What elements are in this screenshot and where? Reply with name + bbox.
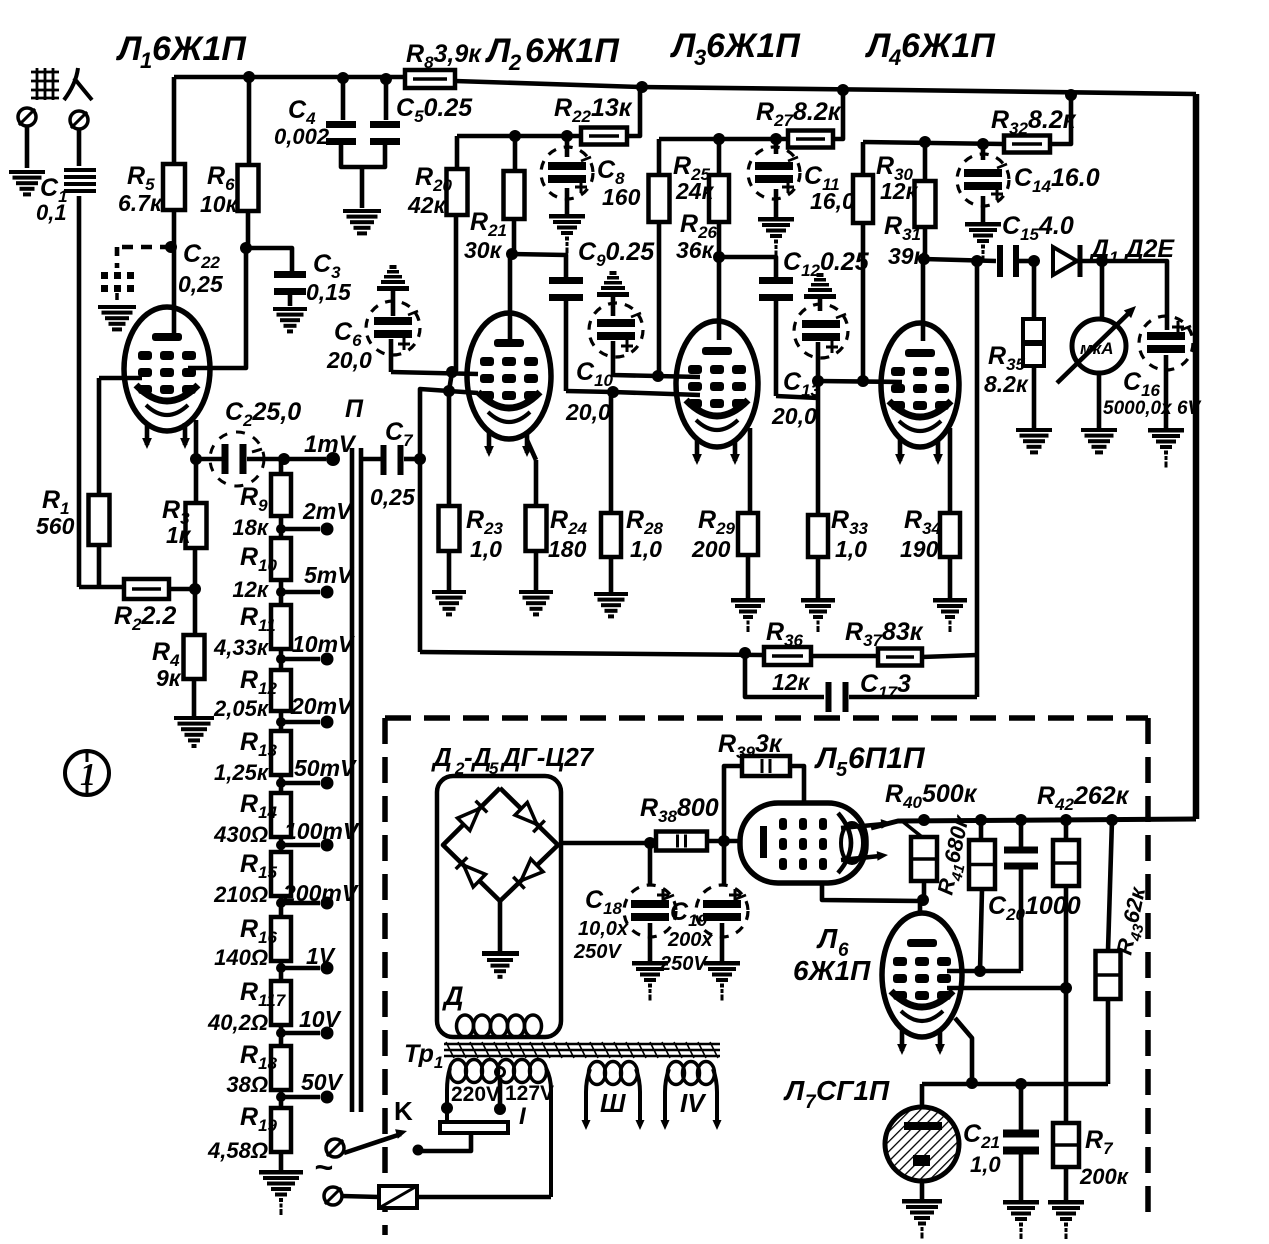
svg-text:C90.25: C90.25 xyxy=(578,238,655,270)
svg-text:36к: 36к xyxy=(676,237,715,263)
svg-text:4,58Ω: 4,58Ω xyxy=(207,1138,268,1163)
svg-text:30к: 30к xyxy=(464,237,503,263)
svg-text:Л: Л xyxy=(864,27,891,65)
svg-text:2,05к: 2,05к xyxy=(213,696,270,721)
svg-text:220V: 220V xyxy=(451,1083,500,1106)
svg-text:C120.25: C120.25 xyxy=(783,248,870,280)
svg-text:0,002: 0,002 xyxy=(274,124,330,149)
svg-text:C225,0: C225,0 xyxy=(225,398,301,430)
svg-text:430Ω: 430Ω xyxy=(213,822,268,847)
svg-text:9к: 9к xyxy=(156,665,182,691)
svg-text:16,0: 16,0 xyxy=(810,188,855,214)
svg-text:СГ1П: СГ1П xyxy=(816,1075,890,1106)
svg-text:-Д: -Д xyxy=(464,742,492,772)
svg-text:10V: 10V xyxy=(299,1006,342,1032)
svg-text:200: 200 xyxy=(691,536,731,562)
svg-text:42к: 42к xyxy=(407,192,447,218)
svg-text:C1416.0: C1416.0 xyxy=(1014,164,1100,196)
svg-text:Ш: Ш xyxy=(600,1088,626,1118)
svg-text:12к: 12к xyxy=(772,669,811,695)
svg-text:R38800: R38800 xyxy=(640,794,719,826)
svg-text:3: 3 xyxy=(694,45,706,70)
svg-text:Л: Л xyxy=(816,923,838,954)
svg-text:1,0: 1,0 xyxy=(470,536,502,562)
svg-text:Л: Л xyxy=(669,27,696,65)
svg-text:127V: 127V xyxy=(505,1082,554,1105)
svg-text:38Ω: 38Ω xyxy=(226,1072,268,1097)
svg-text:6Ж1П: 6Ж1П xyxy=(152,30,247,68)
svg-text:210Ω: 210Ω xyxy=(213,882,268,907)
svg-text:5mV: 5mV xyxy=(304,562,354,588)
svg-text:Л: Л xyxy=(814,742,838,775)
svg-text:1,0: 1,0 xyxy=(835,536,867,562)
svg-text:200mV: 200mV xyxy=(282,880,359,906)
svg-text:5: 5 xyxy=(836,759,848,781)
svg-text:180: 180 xyxy=(548,536,587,562)
svg-text:1V: 1V xyxy=(306,943,336,969)
svg-text:24к: 24к xyxy=(675,178,715,204)
svg-text:5: 5 xyxy=(489,759,499,778)
svg-text:2: 2 xyxy=(508,50,522,75)
svg-text:6Ж1П: 6Ж1П xyxy=(706,27,801,65)
svg-text:10к: 10к xyxy=(200,191,239,217)
svg-text:250V: 250V xyxy=(659,953,708,975)
svg-text:4: 4 xyxy=(888,45,901,70)
svg-text:0,15: 0,15 xyxy=(306,279,352,305)
svg-text:6П1П: 6П1П xyxy=(848,742,926,775)
svg-text:20,0: 20,0 xyxy=(771,403,817,429)
svg-text:250V: 250V xyxy=(573,941,622,963)
svg-text:R40500к: R40500к xyxy=(885,780,978,812)
svg-text:1mV: 1mV xyxy=(304,431,357,458)
svg-text:20mV: 20mV xyxy=(290,693,354,719)
svg-text:6Ж1П: 6Ж1П xyxy=(525,32,620,70)
svg-text:100mV: 100mV xyxy=(284,818,360,844)
svg-text:12к: 12к xyxy=(232,577,269,602)
svg-text:1,0: 1,0 xyxy=(630,536,662,562)
svg-text:4,33к: 4,33к xyxy=(213,635,270,660)
svg-text:Л: Л xyxy=(484,32,511,70)
svg-text:6Ж1П: 6Ж1П xyxy=(901,27,996,65)
svg-text:IV: IV xyxy=(680,1088,707,1118)
svg-text:R3783к: R3783к xyxy=(845,618,924,650)
svg-text:10,0х: 10,0х xyxy=(578,918,629,940)
svg-text:20,0: 20,0 xyxy=(326,347,372,373)
svg-text:Д: Д xyxy=(431,742,452,772)
svg-text:5000,0х 6V: 5000,0х 6V xyxy=(1103,398,1202,419)
svg-text:50mV: 50mV xyxy=(294,755,357,781)
svg-text:6.7к: 6.7к xyxy=(118,190,163,216)
svg-text:K: K xyxy=(394,1096,413,1126)
svg-text:6Ж1П: 6Ж1П xyxy=(793,955,871,986)
svg-text:200х: 200х xyxy=(667,929,713,951)
svg-text:12к: 12к xyxy=(880,178,919,204)
svg-text:18к: 18к xyxy=(232,515,269,540)
svg-text:R42262к: R42262к xyxy=(1037,782,1130,814)
svg-text:560: 560 xyxy=(36,513,75,539)
svg-text:0,25: 0,25 xyxy=(370,484,416,510)
svg-text:0,25: 0,25 xyxy=(178,271,224,297)
svg-text:~: ~ xyxy=(314,1149,333,1185)
svg-text:1: 1 xyxy=(140,48,152,73)
svg-text:1,0: 1,0 xyxy=(970,1152,1001,1177)
svg-text:8.2к: 8.2к xyxy=(984,371,1029,397)
svg-text:Д1 Д2Е: Д1 Д2Е xyxy=(1089,235,1175,267)
svg-text:C50.25: C50.25 xyxy=(396,94,473,126)
svg-text:160: 160 xyxy=(602,184,641,210)
svg-text:Д: Д xyxy=(442,981,464,1011)
svg-text:2mV: 2mV xyxy=(302,498,353,524)
svg-text:190: 190 xyxy=(900,536,939,562)
svg-text:40,2Ω: 40,2Ω xyxy=(207,1010,268,1035)
svg-text:1к: 1к xyxy=(166,522,192,548)
svg-text:R278.2к: R278.2к xyxy=(756,98,842,130)
svg-text:R22.2: R22.2 xyxy=(114,602,176,634)
svg-text:39к: 39к xyxy=(888,243,927,269)
svg-text:200к: 200к xyxy=(1079,1164,1130,1189)
svg-text:0,1: 0,1 xyxy=(36,200,67,225)
svg-text:Л: Л xyxy=(783,1075,805,1106)
svg-text:R328.2к: R328.2к xyxy=(991,106,1077,138)
svg-text:10mV: 10mV xyxy=(292,631,355,657)
svg-text:Л: Л xyxy=(115,30,142,68)
svg-text:1,25к: 1,25к xyxy=(214,760,270,785)
svg-text:50V: 50V xyxy=(301,1069,344,1095)
svg-text:R2213к: R2213к xyxy=(554,94,633,126)
svg-text:20,0: 20,0 xyxy=(565,399,611,425)
svg-text:C201000: C201000 xyxy=(988,892,1081,924)
svg-text:R83,9к: R83,9к xyxy=(406,40,482,72)
svg-text:П: П xyxy=(345,395,364,423)
svg-text:ДГ-Ц27: ДГ-Ц27 xyxy=(500,742,595,772)
svg-text:140Ω: 140Ω xyxy=(214,945,268,970)
